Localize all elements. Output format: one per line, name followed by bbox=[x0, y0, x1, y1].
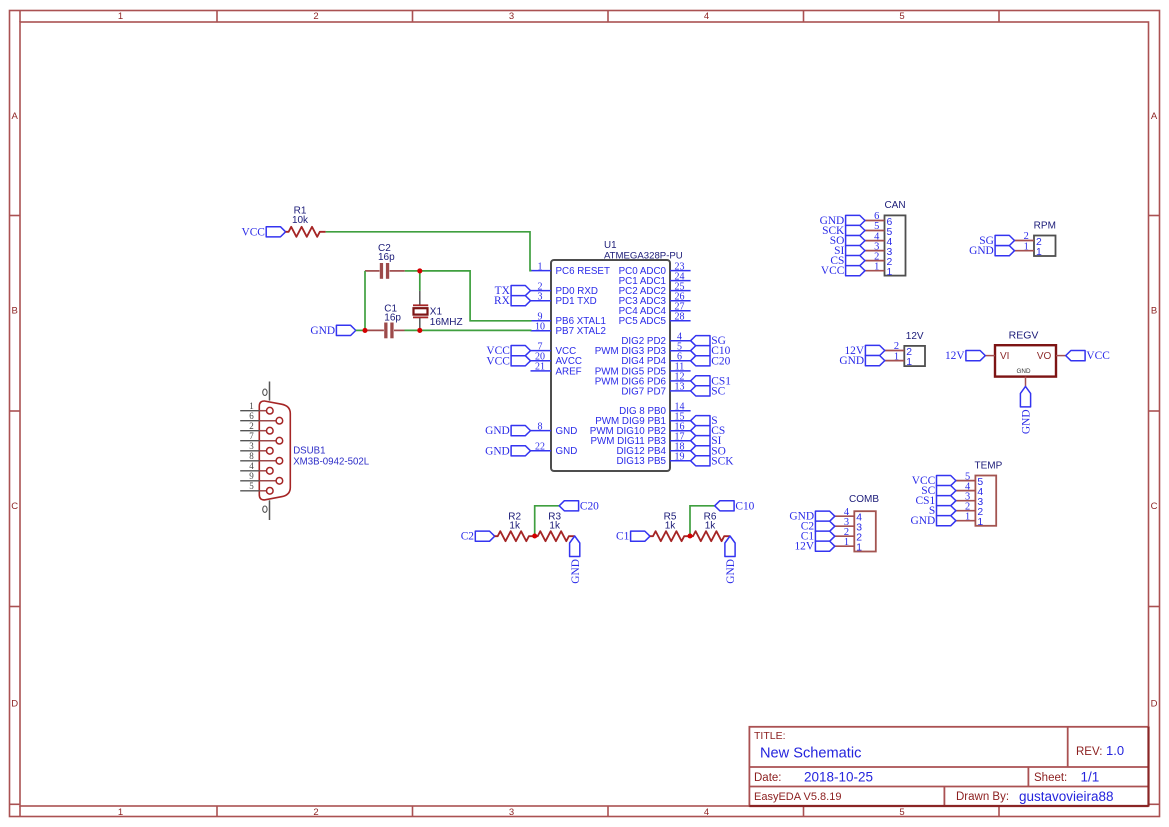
REGV pin VI lead bbox=[985, 355, 995, 357]
svg-text:DIG7 PD7: DIG7 PD7 bbox=[621, 386, 666, 397]
net port GND at COMB pin 4 bbox=[789, 511, 834, 523]
wire C2 left down to GND bbox=[364, 271, 366, 331]
net port TX at U1 pin 2 bbox=[495, 285, 531, 297]
net port C20 at U1 pin 6 bbox=[691, 355, 731, 367]
svg-text:8: 8 bbox=[538, 421, 543, 432]
U1 pin 24 PC1 ADC1 bbox=[619, 271, 691, 287]
svg-text:1: 1 bbox=[874, 261, 879, 272]
CAN pin 3 bbox=[865, 241, 893, 258]
resistor R6 bbox=[690, 512, 730, 542]
net port C20 at R2/R3 node bbox=[559, 500, 599, 512]
net port CS1 at TEMP pin 3 bbox=[916, 495, 956, 507]
svg-text:C2: C2 bbox=[461, 531, 475, 543]
svg-text:3: 3 bbox=[249, 441, 254, 451]
COMB pin 2 bbox=[835, 527, 863, 544]
U1 pin 28 PC5 ADC5 bbox=[619, 312, 691, 328]
svg-text:1: 1 bbox=[906, 357, 912, 368]
svg-text:1.0: 1.0 bbox=[1106, 743, 1124, 758]
svg-text:1: 1 bbox=[538, 261, 543, 272]
svg-text:VO: VO bbox=[1037, 351, 1052, 362]
net port C10 at R5/R6 node bbox=[715, 500, 755, 512]
DSUB1 mounting pin bottom bbox=[263, 500, 270, 520]
resistor R5 bbox=[650, 512, 690, 542]
wire C2/X1 top bbox=[405, 270, 420, 272]
svg-text:3: 3 bbox=[509, 11, 514, 22]
net port 12V at COMB pin 1 bbox=[794, 541, 834, 553]
junction R5 R6 bbox=[687, 533, 692, 538]
junction R2 R3 bbox=[532, 533, 537, 538]
svg-text:10k: 10k bbox=[292, 215, 309, 226]
net port RX at U1 pin 3 bbox=[494, 295, 531, 307]
svg-text:16p: 16p bbox=[378, 252, 395, 263]
U1 pin 26 PC3 ADC3 bbox=[619, 292, 691, 308]
svg-text:2018-10-25: 2018-10-25 bbox=[804, 770, 873, 785]
svg-text:B: B bbox=[12, 306, 18, 317]
junction bottom X1 bbox=[417, 328, 422, 333]
net port GND at U1 pin 22 bbox=[485, 445, 530, 457]
svg-text:New Schematic: New Schematic bbox=[760, 746, 861, 762]
svg-text:GND: GND bbox=[911, 515, 936, 527]
net port GND at TEMP pin 1 bbox=[911, 515, 956, 527]
svg-text:C10: C10 bbox=[735, 500, 754, 512]
net port SO at CAN pin 4 bbox=[830, 235, 865, 247]
CAN pin 1 bbox=[865, 261, 893, 278]
svg-text:21: 21 bbox=[535, 362, 545, 373]
wire node to XTAL1 pin9 bbox=[420, 271, 532, 321]
svg-text:EasyEDA V5.8.19: EasyEDA V5.8.19 bbox=[754, 791, 841, 803]
svg-text:VCC: VCC bbox=[241, 226, 264, 238]
svg-text:4: 4 bbox=[249, 461, 254, 471]
wire X1 top lead bbox=[419, 271, 421, 291]
svg-text:1: 1 bbox=[856, 543, 862, 554]
svg-text:2: 2 bbox=[249, 421, 254, 431]
U1 pin 1 PC6 RESET bbox=[531, 261, 610, 277]
REGV pin VO lead bbox=[1056, 355, 1066, 357]
wire R2 node to C20 bbox=[535, 506, 560, 536]
svg-text:SCK: SCK bbox=[711, 455, 734, 467]
svg-text:DSUB1: DSUB1 bbox=[293, 446, 325, 457]
svg-text:2: 2 bbox=[313, 807, 318, 818]
svg-text:Sheet:: Sheet: bbox=[1034, 772, 1067, 784]
net port SI at CAN pin 3 bbox=[834, 245, 865, 257]
svg-text:12V: 12V bbox=[945, 350, 965, 362]
TEMP pin 3 bbox=[956, 491, 984, 508]
svg-text:GND: GND bbox=[485, 425, 510, 437]
net port 12V at 12V pin 2 bbox=[844, 345, 884, 357]
svg-text:B: B bbox=[1151, 306, 1157, 317]
svg-text:Date:: Date: bbox=[754, 772, 782, 784]
svg-text:5: 5 bbox=[899, 807, 904, 818]
svg-text:TITLE:: TITLE: bbox=[754, 730, 786, 742]
svg-text:7: 7 bbox=[249, 431, 254, 441]
U1 pin 25 PC2 ADC2 bbox=[619, 281, 691, 297]
capacitor C2 bbox=[365, 243, 405, 279]
U1 pin 20 AVCC bbox=[531, 352, 583, 368]
DSUB1 pin 8 bbox=[240, 451, 283, 464]
12V pin 2 bbox=[885, 341, 913, 358]
wire R1 to U1 pin1 bbox=[326, 232, 532, 271]
connector TEMP box bbox=[975, 461, 1003, 526]
svg-text:1: 1 bbox=[887, 267, 893, 278]
U1 pin 8 GND bbox=[531, 421, 578, 437]
svg-text:5: 5 bbox=[899, 11, 904, 22]
net port GND at 12V pin 1 bbox=[839, 355, 884, 367]
net port C2 at R2 bbox=[461, 531, 495, 543]
net port CS at CAN pin 2 bbox=[830, 255, 865, 267]
net port SC at U1 pin 13 bbox=[691, 385, 726, 397]
crystal X1 16MHZ bbox=[413, 291, 463, 330]
net port C1 at R5 bbox=[616, 531, 650, 543]
connector COMB box bbox=[849, 494, 879, 552]
svg-text:ATMEGA328P-PU: ATMEGA328P-PU bbox=[604, 250, 683, 261]
svg-text:1: 1 bbox=[894, 351, 899, 362]
svg-text:22: 22 bbox=[535, 442, 545, 453]
svg-text:VI: VI bbox=[1000, 351, 1009, 362]
svg-text:GND: GND bbox=[1017, 368, 1031, 375]
U1 pin 16 PWM DIG10 PB2 bbox=[590, 422, 691, 438]
U1 pin 27 PC4 ADC4 bbox=[619, 302, 691, 318]
DSUB1 pin 1 bbox=[240, 401, 273, 414]
net port SCK at CAN pin 5 bbox=[822, 225, 865, 237]
RPM pin 2 bbox=[1015, 231, 1043, 248]
net port GND at C1 bbox=[310, 325, 355, 337]
net port C2 at COMB pin 3 bbox=[801, 521, 835, 533]
net port GND at REGV GND bbox=[1020, 386, 1032, 434]
svg-text:GND: GND bbox=[725, 559, 737, 584]
net port 12V at REGV VI bbox=[945, 350, 985, 362]
svg-text:8: 8 bbox=[249, 451, 254, 461]
svg-text:gustavovieira88: gustavovieira88 bbox=[1019, 789, 1114, 804]
U1 pin 12 PWM DIG6 PD6 bbox=[595, 372, 691, 388]
svg-text:1: 1 bbox=[844, 537, 849, 548]
capacitor C1 bbox=[365, 303, 405, 338]
svg-text:C20: C20 bbox=[580, 500, 599, 512]
svg-text:1k: 1k bbox=[509, 521, 521, 532]
REGV pin GND lead bbox=[1025, 377, 1027, 387]
net port S at U1 pin 15 bbox=[691, 415, 718, 427]
op-amp U1 ATMEGA328P-PU body bbox=[551, 240, 683, 471]
svg-text:C: C bbox=[1151, 501, 1158, 512]
svg-text:1k: 1k bbox=[705, 521, 717, 532]
svg-text:1k: 1k bbox=[549, 521, 561, 532]
U1 pin 13 DIG7 PD7 bbox=[621, 382, 690, 398]
net port VCC at REGV VO bbox=[1066, 350, 1110, 362]
connector CAN box bbox=[884, 200, 905, 276]
net port C1 at COMB pin 2 bbox=[801, 531, 835, 543]
svg-text:4: 4 bbox=[704, 11, 709, 22]
net port GND at CAN pin 6 bbox=[820, 215, 865, 227]
net port SG at U1 pin 4 bbox=[691, 335, 726, 347]
svg-text:1: 1 bbox=[1036, 247, 1042, 258]
net port GND at U1 pin 8 bbox=[485, 425, 530, 437]
CAN pin 4 bbox=[865, 231, 893, 248]
svg-text:1: 1 bbox=[977, 517, 983, 528]
CAN pin 6 bbox=[865, 211, 893, 228]
wire GND port to C1 bbox=[356, 329, 365, 331]
svg-text:1: 1 bbox=[249, 401, 254, 411]
COMB pin 4 bbox=[835, 507, 863, 524]
TEMP pin 5 bbox=[956, 471, 984, 488]
net port SI at U1 pin 17 bbox=[691, 435, 722, 447]
TEMP pin 2 bbox=[956, 501, 984, 518]
DSUB1 pin 4 bbox=[240, 461, 273, 474]
TEMP pin 1 bbox=[956, 511, 984, 528]
net port VCC at TEMP pin 5 bbox=[912, 475, 956, 487]
resistor R3 bbox=[535, 512, 575, 542]
svg-text:CAN: CAN bbox=[884, 200, 905, 211]
svg-text:C20: C20 bbox=[711, 355, 730, 367]
svg-text:GND: GND bbox=[969, 245, 994, 257]
COMB pin 3 bbox=[835, 517, 863, 534]
svg-text:C: C bbox=[11, 501, 18, 512]
svg-text:VCC: VCC bbox=[821, 265, 844, 277]
net port C10 at U1 pin 5 bbox=[691, 345, 731, 357]
net port SC at TEMP pin 4 bbox=[921, 485, 956, 497]
DSUB1 pin 2 bbox=[240, 421, 273, 434]
U1 pin 10 PB7 XTAL2 bbox=[531, 322, 606, 338]
svg-text:4: 4 bbox=[704, 807, 709, 818]
wire R5 node to C10 bbox=[690, 506, 715, 536]
svg-text:VCC: VCC bbox=[1086, 350, 1109, 362]
svg-text:PC6 RESET: PC6 RESET bbox=[556, 266, 610, 277]
U1 pin 9 PB6 XTAL1 bbox=[531, 312, 606, 328]
U1 pin 7 VCC bbox=[531, 341, 577, 357]
svg-text:VCC: VCC bbox=[486, 355, 509, 367]
resistor R1 bbox=[286, 206, 326, 237]
svg-text:1k: 1k bbox=[665, 521, 677, 532]
U1 pin 2 PD0 RXD bbox=[531, 281, 598, 297]
U1 pin 14 DIG 8 PB0 bbox=[619, 402, 690, 418]
net port GND at RPM pin 1 bbox=[969, 245, 1014, 257]
DSUB1 pin 3 bbox=[240, 441, 273, 454]
svg-text:PD1 TXD: PD1 TXD bbox=[556, 296, 597, 307]
net port SO at U1 pin 18 bbox=[691, 445, 726, 457]
U1 pin 11 PWM DIG5 PD5 bbox=[595, 362, 691, 378]
wire bottom node to XTAL2 pin10 bbox=[405, 329, 532, 331]
regulator REGV body bbox=[995, 330, 1056, 377]
RPM pin 1 bbox=[1015, 241, 1043, 258]
svg-text:19: 19 bbox=[675, 452, 685, 463]
svg-text:16MHZ: 16MHZ bbox=[430, 317, 463, 328]
U1 pin 4 DIG2 PD2 bbox=[621, 332, 690, 348]
svg-text:A: A bbox=[1151, 111, 1158, 122]
svg-text:6: 6 bbox=[249, 411, 254, 421]
net port VCC at CAN pin 1 bbox=[821, 265, 865, 277]
U1 pin 23 PC0 ADC0 bbox=[619, 261, 691, 277]
svg-text:U1: U1 bbox=[604, 240, 617, 251]
svg-text:D: D bbox=[1151, 699, 1158, 710]
svg-text:C1: C1 bbox=[616, 531, 630, 543]
svg-text:XM3B-0942-502L: XM3B-0942-502L bbox=[293, 457, 370, 468]
junction top X1 bbox=[417, 268, 422, 273]
CAN pin 2 bbox=[865, 251, 893, 268]
net port GND at R3 bbox=[570, 536, 582, 584]
net port VCC at U1 pin 7 bbox=[486, 345, 530, 357]
junction GND C1 bbox=[362, 328, 367, 333]
U1 pin 3 PD1 TXD bbox=[531, 292, 597, 308]
U1 pin 18 DIG12 PB4 bbox=[616, 442, 690, 458]
svg-text:GND: GND bbox=[839, 355, 864, 367]
net port CS1 at U1 pin 12 bbox=[691, 375, 732, 387]
svg-text:PB7 XTAL2: PB7 XTAL2 bbox=[556, 326, 606, 337]
connector DSUB1 XM3B-0942-502L body bbox=[259, 401, 369, 500]
svg-text:1: 1 bbox=[118, 11, 123, 22]
DSUB1 mounting pin top bbox=[263, 382, 270, 401]
svg-text:RPM: RPM bbox=[1034, 221, 1056, 232]
svg-text:12V: 12V bbox=[794, 541, 814, 553]
DSUB1 pin 9 bbox=[240, 471, 283, 484]
TEMP pin 4 bbox=[956, 481, 984, 498]
svg-text:RX: RX bbox=[494, 295, 511, 307]
svg-text:Drawn By:: Drawn By: bbox=[956, 791, 1009, 803]
U1 pin 15 PWM DIG9 PB1 bbox=[595, 412, 690, 428]
COMB pin 1 bbox=[835, 537, 863, 554]
svg-text:9: 9 bbox=[249, 471, 254, 481]
U1 pin 6 DIG4 PD4 bbox=[621, 352, 690, 368]
svg-text:SC: SC bbox=[711, 385, 725, 397]
svg-text:5: 5 bbox=[249, 481, 254, 491]
svg-text:1/1: 1/1 bbox=[1081, 770, 1100, 785]
svg-text:TEMP: TEMP bbox=[975, 461, 1003, 472]
resistor R2 bbox=[495, 512, 535, 542]
U1 pin 19 DIG13 PB5 bbox=[616, 452, 690, 468]
svg-text:1: 1 bbox=[1024, 241, 1029, 252]
connector RPM box bbox=[1034, 221, 1056, 257]
title block bbox=[749, 727, 1148, 806]
svg-text:1: 1 bbox=[118, 807, 123, 818]
net port VCC at U1 pin 20 bbox=[486, 355, 530, 367]
U1 pin 5 PWM DIG3 PD3 bbox=[595, 342, 691, 358]
12V pin 1 bbox=[885, 351, 913, 368]
svg-text:10: 10 bbox=[535, 322, 545, 333]
svg-text:REV:: REV: bbox=[1076, 746, 1102, 758]
CAN pin 5 bbox=[865, 221, 893, 238]
svg-text:16p: 16p bbox=[384, 313, 401, 324]
svg-text:1: 1 bbox=[965, 511, 970, 522]
svg-text:REGV: REGV bbox=[1009, 330, 1039, 342]
svg-text:GND: GND bbox=[485, 445, 510, 457]
svg-text:2: 2 bbox=[313, 11, 318, 22]
svg-text:GND: GND bbox=[310, 325, 335, 337]
svg-text:3: 3 bbox=[538, 292, 543, 303]
svg-text:COMB: COMB bbox=[849, 494, 879, 505]
DSUB1 pin 7 bbox=[240, 431, 283, 444]
U1 pin 22 GND bbox=[531, 442, 578, 458]
connector 12V box bbox=[904, 331, 925, 366]
svg-text:AREF: AREF bbox=[556, 366, 582, 377]
U1 pin 17 PWM DIG11 PB3 bbox=[591, 432, 691, 448]
svg-text:PC5 ADC5: PC5 ADC5 bbox=[619, 316, 667, 327]
svg-text:D: D bbox=[11, 699, 18, 710]
net port GND at R6 bbox=[725, 536, 737, 584]
net port VCC at R1 bbox=[241, 226, 285, 238]
svg-text:12V: 12V bbox=[906, 331, 924, 342]
net port SG at RPM pin 2 bbox=[979, 235, 1014, 247]
U1 pin 21 AREF bbox=[531, 362, 582, 378]
DSUB1 pin 5 bbox=[240, 481, 273, 494]
net port SCK at U1 pin 19 bbox=[691, 455, 735, 467]
net port CS at U1 pin 16 bbox=[691, 425, 726, 437]
DSUB1 pin 6 bbox=[240, 411, 283, 424]
svg-text:GND: GND bbox=[556, 446, 578, 457]
svg-text:A: A bbox=[12, 111, 19, 122]
svg-text:DIG13 PB5: DIG13 PB5 bbox=[616, 456, 666, 467]
svg-text:28: 28 bbox=[675, 312, 685, 323]
svg-text:3: 3 bbox=[509, 807, 514, 818]
svg-text:13: 13 bbox=[675, 382, 685, 393]
svg-text:GND: GND bbox=[570, 559, 582, 584]
net port S at TEMP pin 2 bbox=[929, 505, 956, 517]
svg-text:GND: GND bbox=[556, 426, 578, 437]
svg-text:GND: GND bbox=[1021, 409, 1033, 434]
